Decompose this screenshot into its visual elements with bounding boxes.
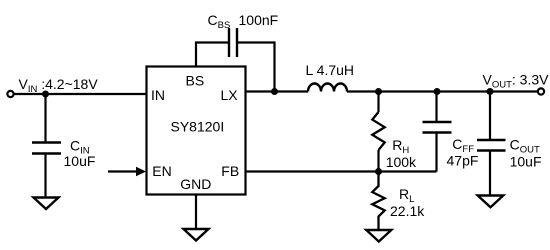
capacitor CBS plates [229,28,237,57]
svg-text:10uF: 10uF [510,154,542,170]
wire BS pin riser [196,43,228,67]
capacitor CFF [423,122,452,133]
capacitor COUT [477,140,506,151]
wire CBS to LX node [238,43,275,92]
svg-text:22.1k: 22.1k [390,203,425,219]
wire COUT riser top [489,92,491,141]
resistor RH [377,92,379,113]
svg-text:FB: FB [221,163,239,179]
node CFF junction [434,88,441,95]
svg-text:SY8120I: SY8120I [171,119,225,135]
ground (RL) [366,230,391,242]
resistor RL [372,172,384,231]
svg-text:EN: EN [152,163,171,179]
node LX junction [271,88,278,95]
svg-text:L 4.7uH: L 4.7uH [306,62,355,78]
wire input to IN pin [14,93,147,95]
node FB junction [375,168,382,175]
svg-text:IN: IN [151,87,165,103]
wire LX pin to inductor [246,90,309,92]
node VIN junction [42,91,49,98]
wire FB pin to CFF [246,170,437,172]
wire COUT to ground [489,151,491,196]
wire CFF riser top [435,92,437,123]
node COUT junction [487,88,494,95]
svg-text:10uF: 10uF [64,153,96,169]
svg-text:47pF: 47pF [447,153,479,169]
input terminal (open circle) [7,91,13,97]
output terminal (open circle) [538,88,544,94]
arrowhead into EN [136,167,146,176]
wire CIN to ground [44,154,46,198]
capacitor CIN [32,143,61,154]
ground (COUT) [478,196,504,208]
wire GND pin to ground [195,195,197,230]
svg-text:100k: 100k [386,154,417,170]
inductor L 4.7uH [308,84,347,92]
node RH junction [375,88,382,95]
wire VIN node down to CIN [44,94,46,142]
wire EN arrow input [108,170,138,172]
ground (CIN) [34,198,59,210]
svg-text:100nF: 100nF [239,12,279,28]
wire inductor to output terminal [347,90,538,92]
IC U1 SY8120I [147,67,246,195]
ground (GND pin) [184,229,209,241]
wire CFF riser bottom [435,133,437,172]
svg-text:LX: LX [221,87,239,103]
svg-text:BS: BS [186,73,205,89]
svg-text:GND: GND [180,176,211,192]
